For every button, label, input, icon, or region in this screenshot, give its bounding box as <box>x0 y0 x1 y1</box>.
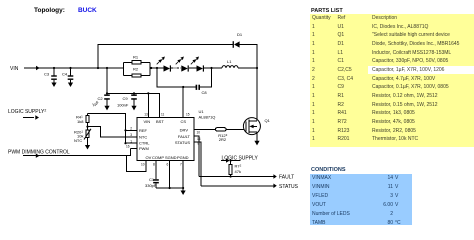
svg-text:8: 8 <box>153 163 155 167</box>
svg-text:8: 8 <box>198 142 200 146</box>
svg-text:C4: C4 <box>62 72 68 77</box>
svg-text:COMP: COMP <box>152 155 164 160</box>
svg-text:47k: 47k <box>235 169 241 174</box>
svg-text:LOGIC SUPPLY: LOGIC SUPPLY <box>222 156 259 162</box>
svg-text:C9: C9 <box>123 96 129 101</box>
svg-text:PWM DIMMING CONTROL: PWM DIMMING CONTROL <box>8 150 70 156</box>
svg-text:Q1: Q1 <box>265 118 271 123</box>
svg-text:14: 14 <box>197 137 201 141</box>
svg-text:NTC: NTC <box>139 135 147 140</box>
svg-text:1k8: 1k8 <box>77 119 84 124</box>
svg-text:11: 11 <box>161 113 165 117</box>
svg-text:C3: C3 <box>44 72 50 77</box>
svg-text:FAULT: FAULT <box>279 175 294 181</box>
svg-text:LOGIC SUPPLY2: LOGIC SUPPLY2 <box>8 109 46 116</box>
svg-text:100nF: 100nF <box>117 103 129 108</box>
svg-text:BST: BST <box>156 119 164 124</box>
svg-text:L1: L1 <box>227 59 232 64</box>
svg-text:PGND: PGND <box>177 155 189 160</box>
svg-text:R72: R72 <box>235 164 242 169</box>
svg-text:CTRL: CTRL <box>139 141 150 146</box>
svg-text:6: 6 <box>167 163 169 167</box>
svg-text:C8: C8 <box>202 90 208 95</box>
svg-text:STATUS: STATUS <box>175 140 191 145</box>
svg-text:C1: C1 <box>149 177 155 182</box>
svg-text:2: 2 <box>130 127 132 131</box>
svg-text:R2: R2 <box>133 67 139 72</box>
svg-text:10: 10 <box>197 131 201 135</box>
svg-text:SGND: SGND <box>165 155 177 160</box>
svg-text:3: 3 <box>130 133 132 137</box>
svg-text:330pF: 330pF <box>145 183 157 188</box>
svg-text:NTC: NTC <box>74 138 82 143</box>
svg-text:10: 10 <box>141 163 145 167</box>
svg-text:16: 16 <box>126 145 130 149</box>
svg-text:VIN: VIN <box>10 66 19 72</box>
svg-text:REF: REF <box>139 128 148 133</box>
svg-text:STATUS: STATUS <box>279 184 299 190</box>
svg-text:FAULT: FAULT <box>178 134 191 139</box>
svg-text:13: 13 <box>144 113 148 117</box>
svg-text:DRV: DRV <box>180 127 189 132</box>
svg-text:VIN: VIN <box>144 119 151 124</box>
svg-text:D1: D1 <box>237 32 243 37</box>
svg-text:AL8871Q: AL8871Q <box>199 115 216 120</box>
svg-text:OV: OV <box>146 155 152 160</box>
svg-text:15: 15 <box>186 113 190 117</box>
svg-text:2R2: 2R2 <box>219 137 227 142</box>
svg-text:1: 1 <box>130 139 132 143</box>
svg-text:R1: R1 <box>133 55 139 60</box>
svg-text:7: 7 <box>180 163 182 167</box>
svg-text:C2: C2 <box>98 96 104 101</box>
svg-text:CS: CS <box>181 119 187 124</box>
svg-text:PWM: PWM <box>139 146 149 151</box>
svg-text:U1: U1 <box>199 109 205 114</box>
